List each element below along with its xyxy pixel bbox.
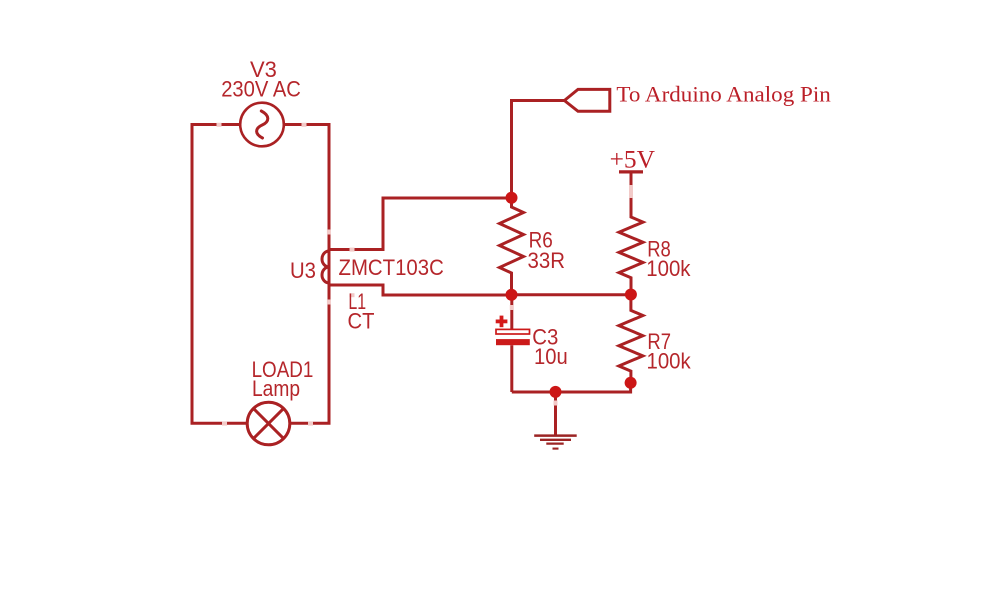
svg-text:U3: U3	[290, 258, 316, 283]
svg-text:+5V: +5V	[610, 147, 655, 174]
svg-text:100k: 100k	[647, 348, 692, 373]
svg-text:Lamp: Lamp	[252, 376, 300, 401]
svg-text:33R: 33R	[528, 248, 566, 273]
svg-text:ZMCT103C: ZMCT103C	[339, 255, 444, 280]
svg-text:To Arduino Analog Pin: To Arduino Analog Pin	[616, 82, 830, 107]
svg-text:CT: CT	[348, 308, 375, 333]
svg-text:10u: 10u	[534, 344, 568, 369]
svg-text:230V AC: 230V AC	[221, 77, 301, 102]
svg-text:100k: 100k	[646, 256, 691, 281]
